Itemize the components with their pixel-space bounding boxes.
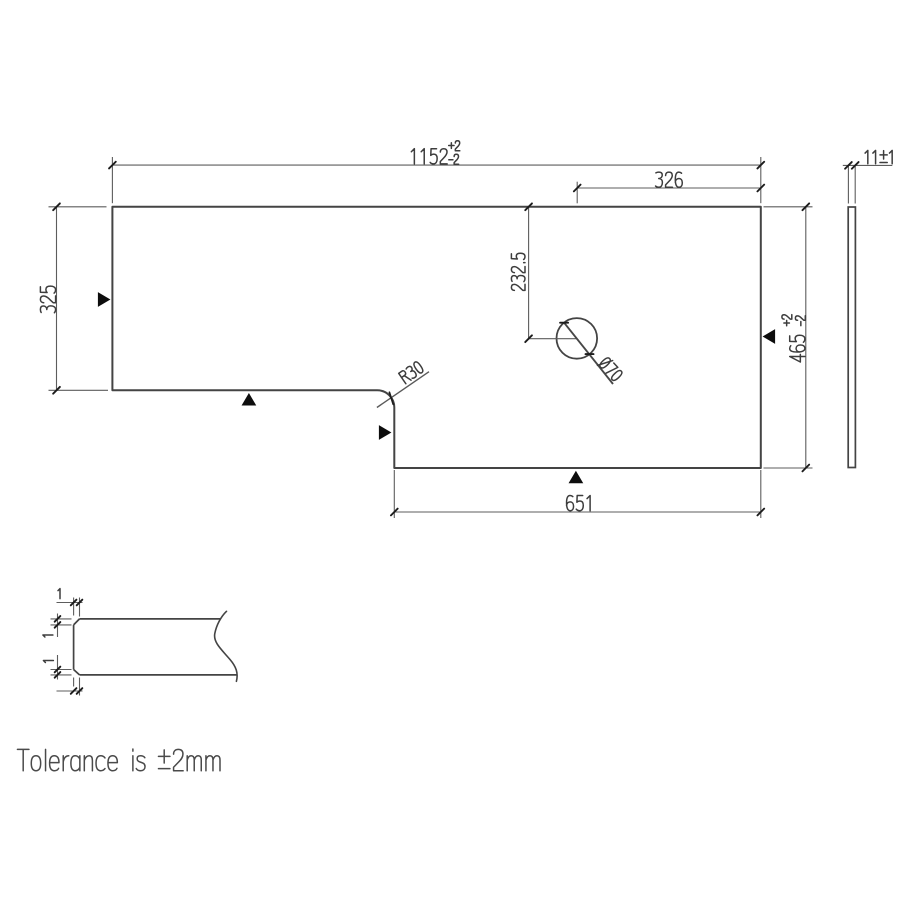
tolerance note bbox=[17, 749, 220, 771]
edge profile bottom chamfer bbox=[74, 670, 80, 675]
worktop plan outline (L-shape) bbox=[112, 207, 760, 468]
profile dim 1 bottom chamfer width bbox=[73, 678, 75, 687]
surface mark triangle left edge bbox=[98, 292, 111, 307]
leader Ø70 bbox=[564, 323, 613, 384]
dimension 651 bottom bbox=[393, 470, 395, 518]
profile dim 1 top chamfer height bbox=[51, 618, 72, 620]
dimension 11±1 side view bbox=[847, 166, 849, 204]
dimension 465 +2/-2 right bbox=[764, 206, 813, 208]
profile dim 1 bottom chamfer height bbox=[51, 669, 72, 671]
side view thin strip bbox=[848, 207, 855, 468]
dimension 325 left bbox=[49, 206, 107, 208]
surface mark triangle right edge bbox=[763, 329, 776, 344]
profile dim 1 top chamfer width bbox=[73, 598, 75, 616]
surface mark triangle bottom-left edge bbox=[242, 393, 257, 406]
surface mark triangle notch edge bbox=[379, 425, 392, 440]
dimension 326 top bbox=[576, 182, 578, 204]
edge profile detail bottom edge bbox=[80, 674, 238, 676]
leader R30 bbox=[377, 372, 429, 408]
edge profile detail top edge bbox=[80, 618, 221, 620]
surface mark triangle bottom-right edge bbox=[569, 471, 584, 484]
dimension 1152 +2/-2 top bbox=[111, 157, 113, 203]
edge profile break squiggle bbox=[215, 611, 238, 681]
edge profile top chamfer bbox=[74, 619, 80, 625]
hole circle Ø70 bbox=[557, 318, 598, 359]
dimension 232.5 hole centre bbox=[528, 207, 530, 339]
edge profile detail left edge bbox=[73, 625, 75, 670]
